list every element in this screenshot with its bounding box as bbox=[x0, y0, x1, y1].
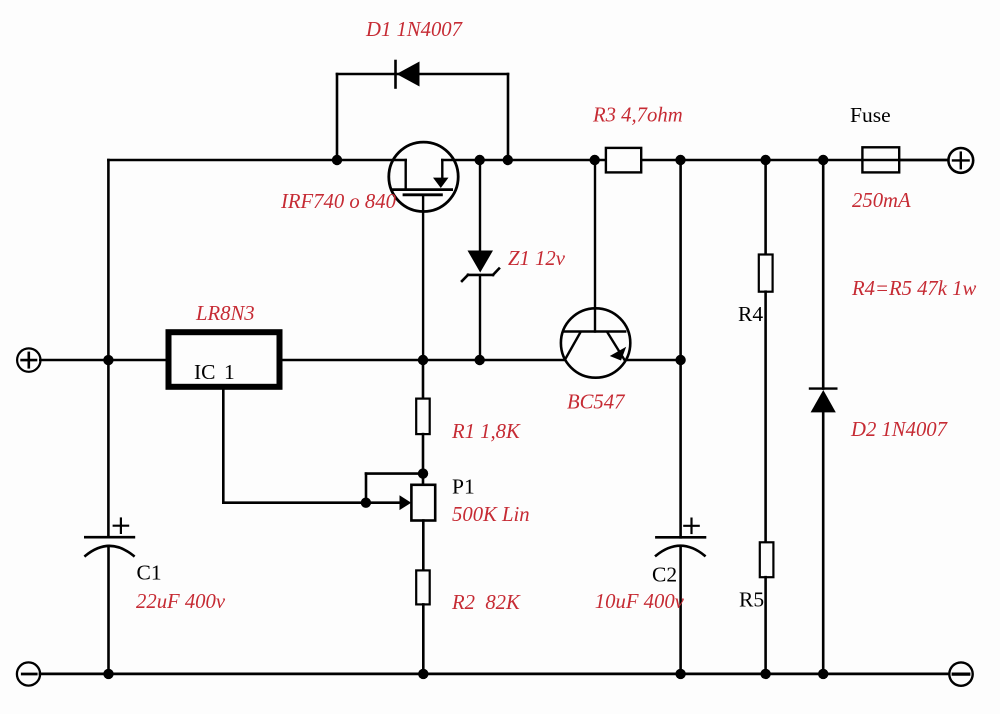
svg-text:IC: IC bbox=[194, 360, 216, 384]
diode D2 vertical + symbol bbox=[810, 160, 836, 674]
node bottom R5 bbox=[760, 669, 770, 679]
node BC547 collector top bbox=[590, 155, 600, 165]
svg-text:R5: R5 bbox=[739, 588, 764, 612]
resistor R2 bbox=[416, 570, 430, 604]
svg-text:C2: C2 bbox=[652, 563, 677, 587]
diode D1 bbox=[396, 61, 420, 88]
potentiometer P1 wiper arrow bbox=[400, 495, 412, 510]
node dots bbox=[103, 155, 828, 679]
svg-text:R4=R5 47k 1w: R4=R5 47k 1w bbox=[851, 278, 976, 300]
svg-text:R3 4,7ohm: R3 4,7ohm bbox=[592, 104, 683, 126]
capacitor C1 bbox=[85, 519, 134, 674]
node D2 top bbox=[818, 155, 828, 165]
transistor Q2 BC547 bbox=[561, 160, 630, 378]
fuse bbox=[862, 147, 948, 172]
svg-text:P1: P1 bbox=[452, 475, 475, 499]
wire top-left gate rail bbox=[108, 159, 405, 162]
svg-text:LR8N3: LR8N3 bbox=[195, 303, 255, 325]
node D1 right bbox=[503, 155, 513, 165]
wire D1 right vertical bbox=[507, 74, 510, 160]
svg-text:250mA: 250mA bbox=[852, 190, 911, 212]
svg-text:IRF740 o 840: IRF740 o 840 bbox=[280, 191, 397, 213]
svg-text:BC547: BC547 bbox=[567, 392, 626, 414]
wire top drain rail bbox=[442, 159, 948, 162]
node bottom C1 bbox=[103, 669, 113, 679]
node D1 left on gate rail bbox=[332, 155, 342, 165]
wire IC1 bottom pin down then right to P1 bbox=[223, 390, 399, 503]
svg-text:500K Lin: 500K Lin bbox=[452, 504, 530, 526]
svg-text:1: 1 bbox=[224, 360, 235, 384]
wire wiper feedback loop bbox=[366, 474, 423, 503]
terminal output - bbox=[949, 662, 972, 685]
node Z1 bottom bbox=[475, 355, 485, 365]
transistor Q1 MOSFET IRF740 bbox=[389, 142, 458, 360]
wire bottom rail bbox=[40, 673, 949, 676]
wire C2 vertical from top rail bbox=[679, 160, 682, 537]
node bottom D2 bbox=[818, 669, 828, 679]
node Z1 top bbox=[475, 155, 485, 165]
terminal input + bbox=[17, 348, 40, 371]
node bottom R2 bbox=[418, 669, 428, 679]
svg-text:Z1 12v: Z1 12v bbox=[508, 248, 566, 270]
wire R4 R5 vertical bbox=[759, 160, 774, 674]
node R4 top bbox=[760, 155, 770, 165]
node wiper line junction bbox=[361, 498, 371, 508]
svg-text:D1 1N4007: D1 1N4007 bbox=[365, 19, 464, 41]
wire R1 branch vertical bbox=[416, 360, 430, 485]
node input junction bbox=[103, 355, 113, 365]
resistor R1 bbox=[416, 399, 430, 435]
svg-text:10uF 400v: 10uF 400v bbox=[595, 591, 685, 613]
svg-text:C1: C1 bbox=[137, 561, 162, 585]
potentiometer P1 box bbox=[411, 485, 435, 521]
terminal input - bbox=[17, 662, 40, 685]
svg-text:R2 82K: R2 82K bbox=[451, 592, 521, 614]
resistor R5 bbox=[760, 542, 774, 577]
node middle rail right end bbox=[675, 355, 685, 365]
node MOSFET source / R1 bbox=[418, 355, 428, 365]
resistor R3 bbox=[606, 148, 641, 173]
IC U1 LR8N3 box bbox=[169, 332, 280, 387]
svg-text:D2 1N4007: D2 1N4007 bbox=[850, 419, 949, 441]
wire D1 left vertical bbox=[336, 74, 339, 160]
terminal output + bbox=[948, 148, 973, 173]
node C2 top bbox=[675, 155, 685, 165]
svg-text:22uF 400v: 22uF 400v bbox=[136, 591, 226, 613]
wire D1 top horizontal bbox=[337, 73, 508, 76]
zener Z1 bbox=[462, 160, 499, 360]
node bottom C2 bbox=[675, 669, 685, 679]
svg-text:R4: R4 bbox=[738, 302, 763, 326]
wire middle rail right of BC547 bbox=[626, 359, 681, 362]
wire left vertical x=108 top rail to C1 bbox=[107, 160, 110, 537]
resistor R4 bbox=[759, 255, 773, 292]
wire middle rail left bbox=[40, 359, 565, 362]
svg-text:Fuse: Fuse bbox=[850, 103, 891, 127]
capacitor C2 bbox=[656, 519, 705, 674]
svg-text:R1 1,8K: R1 1,8K bbox=[451, 421, 521, 443]
node R1 bottom / wiper loop bbox=[418, 468, 428, 478]
